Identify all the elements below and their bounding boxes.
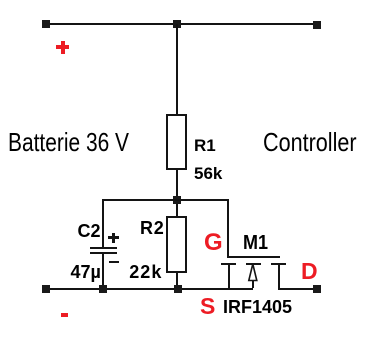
label + (red plus) bbox=[56, 45, 69, 49]
label C2 bbox=[78, 222, 101, 240]
wire gate branch horizontal bbox=[177, 199, 229, 201]
wire junction to C2 branch bbox=[102, 199, 177, 201]
wire source down bbox=[228, 264, 230, 288]
node D terminal bbox=[313, 285, 321, 293]
mosfet M1 drain bar bbox=[271, 263, 286, 265]
wire R1 to junction bbox=[176, 170, 178, 200]
wire top rail bbox=[46, 23, 317, 25]
node controller + terminal bbox=[313, 21, 321, 29]
resistor R2 bbox=[166, 216, 187, 273]
node R1/R2 junction bbox=[173, 196, 181, 204]
label 22k bbox=[129, 263, 162, 281]
label IRF1405 bbox=[223, 298, 292, 316]
node battery - terminal bbox=[42, 285, 50, 293]
label - (red minus) bbox=[61, 313, 69, 317]
capacitor C2 bottom plate bbox=[90, 252, 117, 254]
mosfet M1 gate plate bbox=[227, 256, 280, 258]
wire gate branch vertical bbox=[227, 200, 229, 257]
label Controller bbox=[263, 129, 357, 155]
label R2 bbox=[140, 219, 165, 237]
wire drain to D terminal bbox=[278, 288, 314, 290]
label Batterie 36 V bbox=[8, 129, 129, 155]
wire junction to R2 bbox=[176, 204, 178, 216]
label R1 bbox=[194, 137, 216, 154]
label G bbox=[204, 231, 223, 255]
mosfet M1 body bar bbox=[246, 263, 261, 265]
mosfet body arrow bbox=[247, 263, 259, 282]
label - polarity bbox=[109, 261, 119, 263]
capacitor C2 top plate bbox=[90, 247, 117, 249]
node top junction bbox=[173, 20, 181, 28]
wire drain down bbox=[278, 264, 280, 288]
label 47u bbox=[71, 263, 101, 281]
wire C2 to bottom rail bbox=[102, 254, 104, 288]
wire R2 to bottom rail bbox=[176, 273, 178, 288]
node R2 bottom junction bbox=[174, 285, 182, 293]
label + polarity bbox=[108, 236, 119, 239]
wire top junction to R1 bbox=[176, 24, 178, 115]
node C2 bottom junction bbox=[99, 285, 107, 293]
mosfet M1 source bar bbox=[221, 263, 236, 265]
wire down to C2 bbox=[102, 200, 104, 247]
resistor R1 bbox=[166, 114, 187, 170]
label D bbox=[301, 260, 318, 283]
node battery + terminal bbox=[42, 20, 50, 28]
label 56k bbox=[194, 165, 222, 182]
label S bbox=[200, 295, 215, 318]
wire body down bbox=[252, 280, 254, 288]
label M1 bbox=[243, 233, 268, 253]
wire bottom rail bbox=[43, 288, 253, 290]
